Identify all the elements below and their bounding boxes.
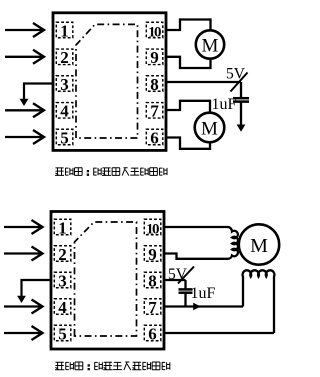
caption: 应用图：驱动两个直流电机 bbox=[55, 168, 167, 176]
svg-text:8: 8 bbox=[150, 75, 159, 94]
IC U2 internal die outline bbox=[75, 222, 137, 336]
pin 5 (U2) bbox=[54, 324, 71, 343]
input arrow to pin 4 (U2) bbox=[4, 300, 43, 314]
svg-text:4: 4 bbox=[58, 298, 67, 317]
svg-text:3: 3 bbox=[60, 75, 69, 94]
wire pin 10 to motor M1 bbox=[166, 20, 211, 31]
motor M2 (DC motor) bbox=[195, 113, 225, 143]
svg-text:1: 1 bbox=[60, 21, 69, 40]
pin 4 (U1) bbox=[56, 102, 73, 121]
svg-text:9: 9 bbox=[148, 245, 157, 264]
stepper coil L1 bbox=[228, 227, 238, 259]
capacitor C1 bbox=[233, 82, 249, 126]
wire stepper coil L2 to pin 6 (U2) bbox=[164, 332, 274, 334]
ground wire from pin 3 (U1) bbox=[20, 84, 53, 107]
input arrow to pin 1 (U2) bbox=[4, 220, 43, 234]
pin 1 (U1) bbox=[56, 21, 73, 40]
pin 2 (U1) bbox=[56, 48, 73, 67]
svg-text:6: 6 bbox=[148, 324, 157, 343]
wire pin 9 to motor M1 bbox=[166, 57, 211, 68]
svg-text:1: 1 bbox=[58, 218, 67, 237]
wire pin 8 to 5V supply node (U1) bbox=[166, 81, 241, 83]
pin 8 (U2) bbox=[144, 271, 161, 290]
pin 3 (U2) bbox=[54, 271, 71, 290]
svg-text:7: 7 bbox=[148, 298, 157, 317]
wire pin 7 to motor M2 bbox=[166, 101, 210, 113]
svg-text:1uF: 1uF bbox=[212, 96, 237, 113]
input arrow to pin 1 (U1) bbox=[5, 23, 44, 37]
svg-text:5V: 5V bbox=[226, 66, 246, 83]
pin 4 (U2) bbox=[54, 298, 71, 317]
pin 9 (U1) bbox=[146, 48, 163, 67]
wire pin 8 to 5V supply node (U2) bbox=[164, 279, 186, 281]
wire pin 10 to stepper coil L1 bbox=[164, 226, 228, 228]
svg-text:9: 9 bbox=[150, 48, 159, 67]
IC U2 package outline bbox=[51, 212, 164, 350]
svg-text:6: 6 bbox=[150, 128, 159, 147]
caption: 应用图：驱动一个步进电机 bbox=[55, 362, 170, 370]
svg-text:1uF: 1uF bbox=[191, 285, 216, 302]
input arrow to pin 2 (U1) bbox=[5, 50, 44, 64]
junction arrow on pin 7 wire (U2) bbox=[193, 303, 201, 311]
pin 2 (U2) bbox=[54, 245, 71, 264]
pin 6 (U1) bbox=[146, 128, 163, 147]
stepper motor M3 bbox=[239, 224, 279, 264]
input arrow to pin 2 (U2) bbox=[4, 247, 43, 261]
wire pin 7 to stepper coil L2 bbox=[164, 305, 243, 307]
svg-text:5: 5 bbox=[58, 324, 67, 343]
input arrow to pin 5 (U1) bbox=[5, 130, 44, 144]
label 1uF bbox=[212, 96, 237, 113]
stepper coil L2 bbox=[243, 270, 275, 333]
IC U1 internal die outline bbox=[76, 24, 138, 138]
5V supply slash (U2) bbox=[178, 267, 194, 284]
svg-text:10: 10 bbox=[148, 24, 161, 40]
label 1uF (U2) bbox=[191, 285, 216, 302]
svg-text:M: M bbox=[202, 36, 219, 57]
svg-text:7: 7 bbox=[150, 102, 159, 121]
pin 5 (U1) bbox=[56, 128, 73, 147]
capacitor C2 bbox=[179, 280, 193, 307]
svg-text:4: 4 bbox=[60, 102, 69, 121]
pin 3 (U1) bbox=[56, 75, 73, 94]
input arrow to pin 4 (U1) bbox=[5, 103, 44, 117]
wire pin 9 to stepper coil L1 bbox=[164, 254, 228, 259]
svg-text:2: 2 bbox=[60, 48, 69, 67]
svg-text:3: 3 bbox=[58, 271, 67, 290]
wire pin 6 to motor M2 bbox=[166, 138, 210, 149]
pin 6 (U2) bbox=[144, 324, 161, 343]
pin 7 (U1) bbox=[146, 102, 163, 121]
pin 8 (U1) bbox=[146, 75, 163, 94]
IC U1 package outline bbox=[53, 13, 166, 151]
pin 9 (U2) bbox=[144, 245, 161, 264]
ground arrow below capacitor C1 bbox=[237, 125, 246, 132]
ground wire from pin 3 (U2) bbox=[17, 280, 51, 303]
5V supply slash (U1) bbox=[231, 73, 248, 92]
input arrow to pin 5 (U2) bbox=[4, 326, 43, 340]
motor M1 (DC motor) bbox=[196, 30, 224, 58]
pin 10 (U2) bbox=[144, 219, 161, 237]
label 5V (U2) bbox=[168, 266, 188, 283]
svg-text:M: M bbox=[250, 235, 268, 257]
svg-text:2: 2 bbox=[58, 245, 67, 264]
label 5V (U1) bbox=[226, 66, 246, 83]
svg-text:8: 8 bbox=[148, 271, 157, 290]
svg-text:M: M bbox=[201, 119, 218, 140]
pin 7 (U2) bbox=[144, 298, 161, 317]
svg-text:5: 5 bbox=[60, 128, 69, 147]
pin 10 (U1) bbox=[146, 22, 163, 40]
svg-text:10: 10 bbox=[146, 221, 159, 237]
pin 1 (U2) bbox=[54, 218, 71, 237]
